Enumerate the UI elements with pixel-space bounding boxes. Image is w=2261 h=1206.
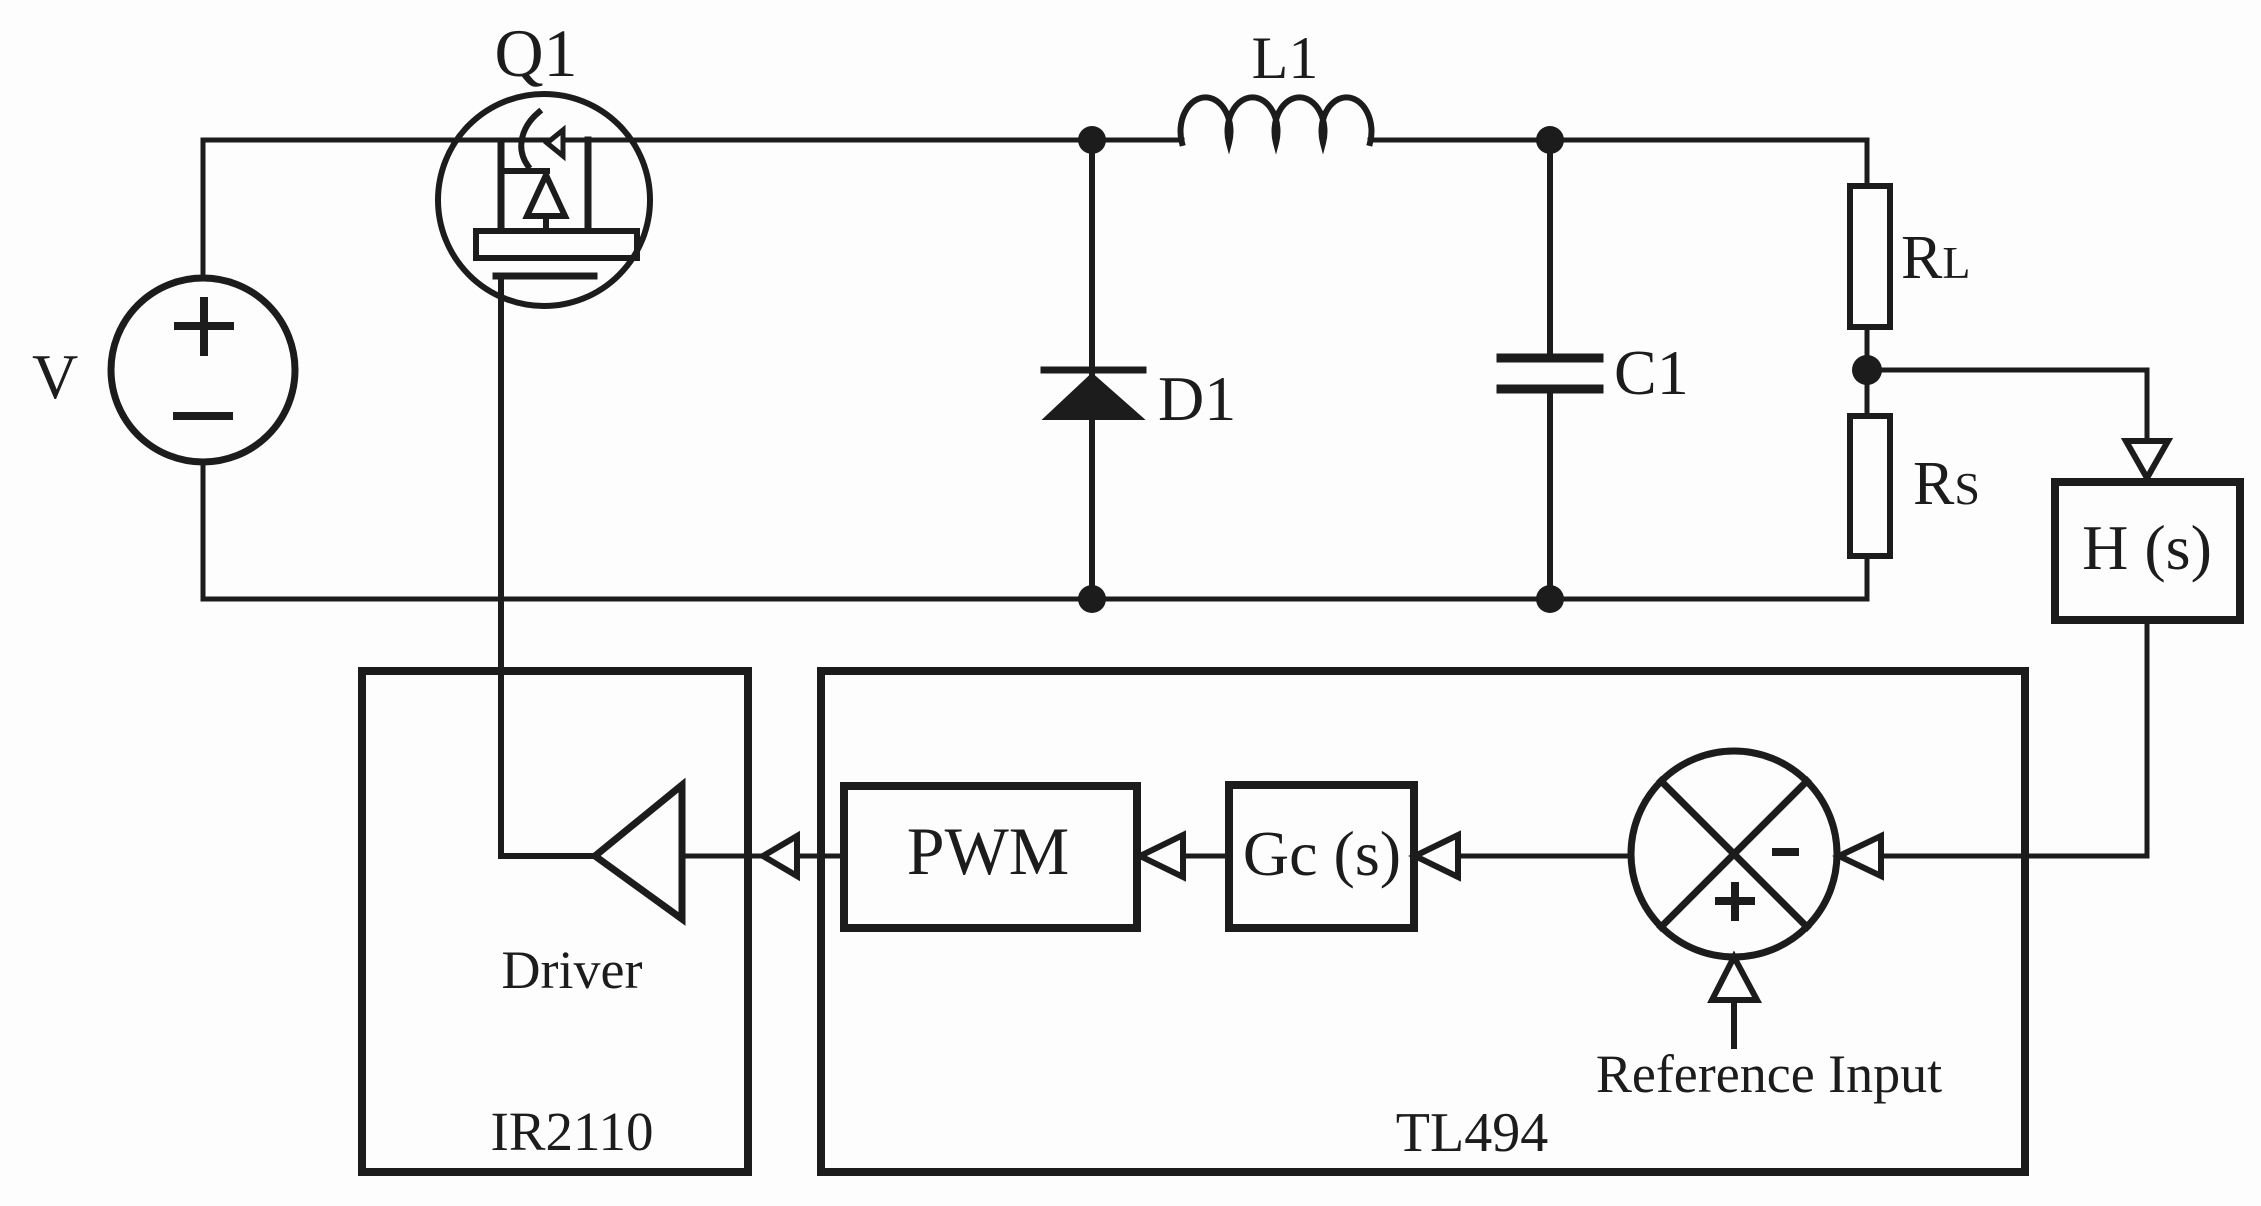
inductor L1 [1181,97,1372,143]
block TL494 [821,671,2025,1172]
wire summer to Gc [1414,854,1631,859]
svg-text:L1: L1 [1252,25,1319,91]
wire H(s) output down and left [1881,620,2147,856]
wire gate drop from Q1 to driver [501,276,595,856]
summing junction [1631,751,1837,957]
node output junction dot [1852,355,1882,385]
wire top rail [203,138,1182,143]
wire bottom rail [203,597,1867,602]
svg-text:Driver: Driver [502,940,643,1000]
wire below source [201,461,206,599]
arrowhead into summer from right [1839,836,1881,876]
wire C1 branch upper [1547,140,1553,355]
label plus [1719,886,1751,917]
wire top rail right of inductor [1370,138,1867,143]
node junction dot top right [1536,126,1564,154]
driver buffer triangle [595,785,682,919]
block H(s) [2055,482,2240,620]
wire driver input line [682,854,844,859]
arrowhead into PWM [1140,835,1183,877]
svg-text:H (s): H (s) [2082,512,2212,583]
svg-text:Q1: Q1 [494,15,577,91]
wire left drop from top rail to source [201,140,206,279]
svg-text:V: V [32,341,78,412]
svg-text:Gc (s): Gc (s) [1243,818,1401,889]
arrowhead into driver [763,836,797,876]
wire Gc to PWM [1137,854,1229,859]
svg-text:C1: C1 [1614,337,1689,408]
block Gc(s) [1229,785,1414,928]
svg-text:TL494: TL494 [1396,1102,1548,1164]
arrowhead reference input [1712,957,1757,1000]
node junction dot bottom right [1536,585,1564,613]
resistor RL [1850,186,1890,327]
node A junction dot top left [1078,126,1106,154]
capacitor C1 [1501,358,1599,389]
voltage source V [111,278,295,462]
wire D1 branch [1089,140,1095,599]
svg-text:D1: D1 [1158,363,1236,434]
arrowhead into H(s) [2126,441,2168,478]
svg-text:IR2110: IR2110 [491,1101,654,1162]
wire C1 branch lower [1547,393,1553,599]
arrowhead into Gc [1415,835,1458,877]
svg-text:PWM: PWM [907,813,1069,889]
wire right drop from top rail to RL [1865,140,1870,186]
node junction dot bottom left [1078,585,1106,613]
transistor Q1 [438,94,650,306]
wire between RL and node [1865,327,1870,416]
label minus [1776,848,1795,856]
svg-text:Reference Input: Reference Input [1596,1044,1942,1104]
wire sense line to H(s) [1867,370,2147,441]
wire reference input [1731,1000,1737,1046]
resistor Rs [1850,416,1890,556]
wire below Rs to bottom rail [1865,556,1870,599]
block IR2110 [362,671,748,1172]
block PWM [844,786,1137,928]
diode D1 [1044,370,1143,419]
